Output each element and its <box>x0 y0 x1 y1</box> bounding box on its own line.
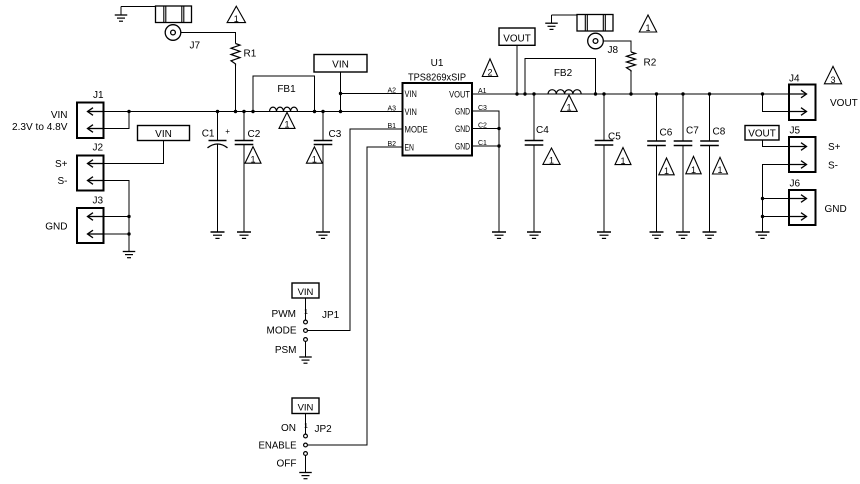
net label VOUT (right) <box>745 126 779 141</box>
svg-text:A2: A2 <box>387 87 396 94</box>
svg-text:1: 1 <box>664 166 669 176</box>
net label VIN (JP1) <box>292 283 319 298</box>
svg-text:PWM: PWM <box>272 309 296 320</box>
svg-text:J3: J3 <box>93 196 104 207</box>
svg-text:2: 2 <box>487 68 492 78</box>
J2 pin 1 arrow <box>88 160 104 168</box>
capacitor C3 <box>322 112 324 141</box>
connector J3 <box>77 208 104 243</box>
J5 pin 2 arrow <box>789 161 807 169</box>
jumper JP1 pin 1 <box>304 320 308 324</box>
wire U1 pin A2 <box>341 93 403 95</box>
svg-text:GND: GND <box>45 222 67 233</box>
capacitor C5 <box>603 94 605 141</box>
ferrite bead FB1 shield box <box>253 76 315 112</box>
svg-text:MODE: MODE <box>267 326 297 337</box>
svg-text:VIN: VIN <box>51 110 68 121</box>
J4 pin 1 arrow <box>789 90 807 98</box>
ground (C1) <box>211 232 225 238</box>
connector J4 <box>789 85 816 121</box>
resistor R1 <box>231 44 240 66</box>
svg-text:C5: C5 <box>608 132 621 143</box>
junction VIN drop / A2 wire <box>339 92 342 95</box>
junction GND C1 <box>497 144 500 147</box>
svg-text:2.3V to 4.8V: 2.3V to 4.8V <box>12 122 68 133</box>
wire VOUT label to rail <box>516 45 518 94</box>
wire VIN label to rail <box>340 72 342 112</box>
svg-text:U1: U1 <box>431 58 444 69</box>
junction VOUT drop / rail <box>515 92 518 95</box>
svg-text:1: 1 <box>620 156 625 166</box>
svg-text:S+: S+ <box>55 159 68 170</box>
junction J3 pin2 <box>127 232 130 235</box>
svg-text:3: 3 <box>830 75 835 85</box>
svg-text:C6: C6 <box>660 128 673 139</box>
jumper JP1 pin 3 <box>304 338 308 342</box>
svg-text:EN: EN <box>405 142 415 152</box>
wire VIN label to JP1 pin1 <box>305 298 307 320</box>
svg-text:VIN: VIN <box>155 129 172 140</box>
resistor R2 <box>627 52 636 72</box>
jumper JP2 pin 2 <box>304 443 308 447</box>
wire U1 GND pins to ground <box>472 111 499 232</box>
ground (JP2) <box>299 473 312 479</box>
ground (J3) <box>123 252 136 258</box>
junction R2 / rail <box>629 92 632 95</box>
wire R2 to VOUT rail <box>630 72 632 94</box>
note triangle 1 (FB1) <box>279 112 295 129</box>
svg-text:GND: GND <box>825 204 847 215</box>
junction J1 pin2 / rail <box>127 110 130 113</box>
junction R1/VIN rail <box>234 110 237 113</box>
wire J3 pin2 to ground bus <box>104 233 130 235</box>
J2 pin 2 arrow <box>88 177 104 185</box>
note triangle 1 (C4) <box>543 148 560 166</box>
connector J5 <box>789 137 816 172</box>
svg-text:JP1: JP1 <box>322 310 340 321</box>
svg-text:1: 1 <box>566 103 571 113</box>
svg-text:C3: C3 <box>329 129 342 140</box>
svg-text:MODE: MODE <box>405 124 428 134</box>
svg-text:C7: C7 <box>686 126 699 137</box>
svg-text:1: 1 <box>645 23 650 33</box>
junction C4 / rail <box>532 92 535 95</box>
wire J8 to R2 <box>603 41 631 52</box>
ground (C6) <box>650 232 664 238</box>
ground (JP1) <box>299 357 312 363</box>
note triangle 1 (C8) <box>713 157 728 175</box>
svg-text:J2: J2 <box>93 143 104 154</box>
jumper JP1 pin 2 <box>304 329 308 333</box>
svg-text:VIN: VIN <box>405 107 417 117</box>
svg-text:PSM: PSM <box>275 345 297 356</box>
svg-text:C4: C4 <box>536 125 549 136</box>
capacitor C2 <box>243 112 245 141</box>
wire ground to J7 shield <box>121 6 156 8</box>
J5 pin 1 arrow <box>789 143 807 151</box>
svg-text:S-: S- <box>828 160 838 171</box>
wire U1 pin C1 GND <box>472 145 499 147</box>
IC U1 TPS8269xSIP <box>403 83 473 156</box>
wire JP1 pin3 to ground <box>305 342 307 358</box>
junction FB1 right leg <box>313 110 316 113</box>
connector J7 (coax jack) <box>156 6 192 23</box>
connector J2 <box>77 156 104 191</box>
svg-text:VIN: VIN <box>332 59 349 70</box>
connector J1 <box>77 103 104 139</box>
net label VOUT (at U1) <box>499 28 535 45</box>
svg-text:1: 1 <box>250 154 255 164</box>
ground (C4) <box>527 232 541 238</box>
ground (U1) <box>492 232 506 238</box>
note triangle 1 (C5) <box>615 148 631 166</box>
svg-text:GND: GND <box>455 124 470 134</box>
wire J2 S- to ground bus <box>104 181 130 252</box>
junction J4 drop / rail <box>761 92 764 95</box>
wire VOUT label to J5 S+ <box>763 140 790 147</box>
svg-text:TPS8269xSIP: TPS8269xSIP <box>408 72 466 83</box>
svg-text:1: 1 <box>304 423 308 430</box>
jumper JP2 pin 3 <box>304 452 308 456</box>
svg-text:VOUT: VOUT <box>449 89 470 99</box>
svg-text:VIN: VIN <box>298 287 314 298</box>
ground (C2) <box>237 232 251 238</box>
svg-text:+: + <box>225 127 230 136</box>
net label VIN (at U1) <box>314 55 367 73</box>
svg-text:R1: R1 <box>244 49 257 60</box>
ferrite bead FB2 shield box <box>525 59 596 95</box>
junction FB1 left leg <box>251 110 254 113</box>
J3 pin 2 arrow <box>88 230 104 238</box>
svg-text:C1: C1 <box>202 129 215 140</box>
svg-text:VOUT: VOUT <box>748 129 776 140</box>
J3 pin 1 arrow <box>88 213 104 221</box>
note triangle 1 (C3) <box>306 147 322 165</box>
wire J7 to R1 <box>181 33 236 44</box>
junction C5 / rail <box>602 92 605 95</box>
J6 pin 2 arrow <box>789 213 807 221</box>
svg-text:1: 1 <box>717 165 722 175</box>
note triangle 1 (at J8/R2) <box>639 15 656 33</box>
wire ground to J8 shield <box>552 14 578 16</box>
capacitor C7 <box>682 94 684 141</box>
ground (C8) <box>703 232 717 238</box>
connector J6 <box>789 190 816 225</box>
svg-text:J8: J8 <box>608 45 619 56</box>
wire J6 pin1 to ground bus <box>763 198 790 200</box>
svg-text:1: 1 <box>284 120 289 130</box>
capacitor C6 <box>656 94 658 141</box>
junction J6 pin2 <box>761 215 764 218</box>
wire JP2 pin3 to ground <box>305 456 307 473</box>
svg-text:C2: C2 <box>248 129 261 140</box>
capacitor C1 (polarized) <box>217 112 219 141</box>
svg-text:1: 1 <box>304 309 308 316</box>
ground (J8 shield) <box>551 15 553 23</box>
svg-text:C8: C8 <box>713 127 726 138</box>
svg-text:VOUT: VOUT <box>503 33 531 44</box>
svg-text:1: 1 <box>234 14 239 24</box>
capacitor C4 <box>533 94 535 141</box>
connector J8 (coax jack) <box>577 15 613 32</box>
wire J6 pin2 to ground bus <box>763 216 790 218</box>
junction C1 / rail <box>216 110 219 113</box>
ground (J6) <box>756 232 770 238</box>
note triangle 1 (C6) <box>659 158 674 176</box>
ground (C7) <box>676 232 690 238</box>
wire VOUT rail (U1 pin A1 to J4) <box>472 93 789 95</box>
note triangle 2 (U1) <box>482 59 497 78</box>
wire R1 to VIN rail <box>235 66 237 112</box>
ground (C5) <box>597 232 611 238</box>
svg-text:ON: ON <box>281 423 296 434</box>
junction FB2 left leg <box>523 92 526 95</box>
junction C8 / rail <box>708 92 711 95</box>
junction FB2 right leg <box>594 92 597 95</box>
svg-text:A3: A3 <box>387 105 396 112</box>
svg-text:1: 1 <box>691 165 696 175</box>
svg-text:FB2: FB2 <box>554 68 573 79</box>
svg-text:J7: J7 <box>190 41 201 52</box>
wire U1 pin B2 (EN) to JP2 <box>308 147 403 445</box>
svg-text:J1: J1 <box>93 90 104 101</box>
svg-text:J5: J5 <box>790 126 801 137</box>
svg-text:S-: S- <box>58 176 68 187</box>
J6 pin 1 arrow <box>789 195 807 203</box>
junction C6 / rail <box>655 92 658 95</box>
wire U1 pin B1 (MODE) to JP1 <box>308 129 403 331</box>
junction C3 / rail <box>321 110 324 113</box>
junction J3 pin1 <box>127 215 130 218</box>
wire VIN rail (J1 to U1 pin A3) <box>104 111 403 113</box>
wire VIN label to J2 S+ <box>104 141 164 164</box>
wire J3 pin1 to ground bus <box>104 216 130 218</box>
svg-text:FB1: FB1 <box>277 84 296 95</box>
svg-text:S+: S+ <box>828 142 841 153</box>
svg-text:VIN: VIN <box>405 89 417 99</box>
svg-text:VIN: VIN <box>298 402 314 413</box>
net label VIN (JP2) <box>292 398 319 414</box>
J4 pin 2 arrow <box>789 108 807 116</box>
ground (J7 shield) <box>120 7 122 16</box>
note triangle 3 (J4) <box>824 66 841 85</box>
wire rail to J4 pin2 <box>763 94 790 112</box>
junction C7 / rail <box>681 92 684 95</box>
svg-text:R2: R2 <box>644 58 657 69</box>
junction J6 pin1 <box>761 197 764 200</box>
wire J1 pin2 to rail <box>104 112 130 129</box>
junction VIN drop / rail <box>339 110 342 113</box>
ground (C3) <box>316 232 330 238</box>
J1 pin 2 arrow <box>88 125 104 133</box>
svg-text:J4: J4 <box>789 74 800 85</box>
junction GND C2 <box>497 127 500 130</box>
svg-text:ENABLE: ENABLE <box>259 441 297 452</box>
note triangle 1 (at J7/R1) <box>227 6 245 24</box>
svg-text:1: 1 <box>312 154 317 164</box>
note triangle 1 (C7) <box>686 156 701 175</box>
inductor FB1 <box>270 107 298 111</box>
jumper JP2 pin 1 <box>304 434 308 438</box>
net label VIN (left) <box>138 126 190 141</box>
J1 pin 1 arrow <box>88 108 104 116</box>
svg-text:1: 1 <box>549 156 554 166</box>
svg-text:JP2: JP2 <box>315 424 333 435</box>
note triangle 1 (C2) <box>245 147 261 165</box>
capacitor C8 <box>709 94 711 141</box>
wire VIN label to JP2 pin1 <box>305 414 307 435</box>
inductor FB2 <box>548 90 581 94</box>
svg-text:OFF: OFF <box>277 459 297 470</box>
wire U1 pin C2 GND <box>472 128 499 130</box>
svg-text:GND: GND <box>455 106 470 116</box>
note triangle 1 (FB2) <box>561 95 577 113</box>
svg-text:J6: J6 <box>790 179 801 190</box>
svg-text:VOUT: VOUT <box>830 98 858 109</box>
junction C2 / rail <box>242 110 245 113</box>
wire J5 S- to ground bus <box>763 165 790 233</box>
svg-text:GND: GND <box>455 142 470 152</box>
